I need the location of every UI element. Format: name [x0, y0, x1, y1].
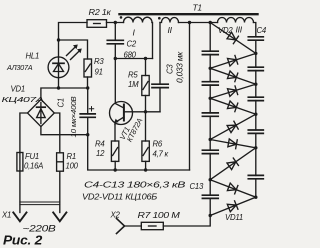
node LED bottom [57, 86, 60, 89]
wire winding II to multiplier [179, 22, 218, 24]
wire base rail [133, 111, 161, 113]
svg-text:VD2: VD2 [218, 26, 233, 35]
svg-text:0,033 мк: 0,033 мк [176, 51, 185, 83]
winding I polarity dot [120, 16, 123, 19]
svg-text:R1: R1 [67, 152, 76, 161]
wire LED bottom [58, 78, 60, 88]
svg-text:10 мк×400В: 10 мк×400В [69, 96, 78, 137]
svg-text:С1: С1 [57, 98, 66, 107]
transistor VT1 [110, 102, 133, 125]
svg-text:С2: С2 [127, 40, 137, 49]
node after R2 [114, 21, 117, 24]
node R4 gnd [114, 168, 117, 171]
wire R5 tap down [145, 59, 147, 76]
svg-text:КЦ407А: КЦ407А [2, 95, 45, 104]
capacitor left2 [202, 82, 218, 85]
wire ground drop [189, 23, 191, 171]
resistor R6 [142, 141, 149, 161]
node R2b [254, 113, 257, 116]
diode VD8 [210, 138, 256, 148]
node L3 [209, 138, 212, 141]
plug X1 right arrow [53, 213, 66, 222]
winding II [160, 18, 179, 23]
winding III [218, 18, 254, 23]
resistor R1 [57, 153, 64, 171]
svg-text:R4: R4 [95, 140, 105, 149]
svg-text:С3: С3 [166, 64, 175, 74]
node L1 [209, 67, 212, 70]
wire multiplier out to R7 [163, 216, 210, 227]
capacitor right4 [248, 130, 263, 133]
node C1 bottom [86, 133, 89, 136]
svg-text:4,7 к: 4,7 к [153, 150, 169, 159]
ground rail [88, 135, 190, 170]
resistor R4 [111, 141, 118, 161]
svg-text:С13: С13 [190, 182, 204, 191]
svg-text:VD1: VD1 [11, 85, 25, 94]
diode VD3 [210, 53, 256, 68]
LED HL1 [48, 45, 82, 78]
svg-text:1М: 1М [128, 80, 139, 89]
resistor R7 [141, 222, 163, 229]
svg-text:12: 12 [96, 149, 105, 158]
svg-text:FU1: FU1 [25, 152, 39, 161]
svg-text:С4: С4 [257, 26, 267, 35]
wire collector rail y58.5 [115, 58, 152, 60]
wire top-left from LED up to R2 [59, 23, 88, 58]
node R0 [254, 52, 257, 55]
svg-text:Рис. 2: Рис. 2 [3, 234, 42, 248]
wire emitter to R4 [114, 125, 116, 142]
svg-text:HL1: HL1 [26, 52, 40, 61]
plug X1 lines [20, 202, 60, 205]
wire R1 to plug [59, 171, 61, 212]
wire bridge plus up [41, 88, 88, 99]
svg-text:~220В: ~220В [23, 223, 56, 234]
svg-text:Х1: Х1 [1, 211, 11, 220]
node R3b [254, 146, 257, 149]
capacitor C4 [248, 37, 263, 40]
svg-text:R6: R6 [153, 140, 163, 149]
diode VD11 [210, 197, 256, 215]
node base [144, 110, 147, 113]
svg-text:680: 680 [124, 51, 137, 60]
wire bridge minus rail [41, 127, 88, 135]
node C2 bottom [114, 57, 117, 60]
resistor R3 [84, 59, 92, 77]
transformer T1 core [120, 13, 258, 15]
wire collector drop [114, 59, 116, 104]
svg-text:0,16А: 0,16А [24, 162, 43, 171]
svg-text:R2 1к: R2 1к [89, 8, 112, 17]
svg-text:R7 100 М: R7 100 М [138, 211, 181, 220]
node R6 gnd [144, 168, 147, 171]
wire R7 to X2 [125, 225, 142, 227]
wire winding III to C4 [254, 23, 256, 37]
resistor R5 [142, 76, 149, 96]
diode VD9 [210, 148, 256, 180]
capacitor right2 [248, 67, 263, 70]
svg-text:100: 100 [66, 162, 79, 171]
svg-text:Т1: Т1 [193, 3, 202, 13]
svg-text:R5: R5 [128, 71, 138, 80]
capacitor left4 [202, 150, 218, 153]
svg-text:Х2: Х2 [110, 211, 121, 220]
node L4 [209, 178, 212, 181]
svg-text:III: III [236, 25, 243, 35]
capacitor left rail 1 [202, 51, 218, 54]
node ground drop [188, 21, 191, 24]
svg-text:VD11: VD11 [225, 213, 243, 222]
diode VD10 [210, 180, 256, 198]
wire R5 to base node [145, 96, 147, 112]
wire R3 bottom [87, 77, 89, 88]
bridge rectifier VD1 [28, 99, 55, 126]
diode VD2 [210, 23, 256, 54]
capacitor right3 [248, 97, 263, 100]
svg-text:С4-С13 180×6,3 кВ: С4-С13 180×6,3 кВ [84, 181, 185, 190]
connector X2 [117, 219, 125, 234]
node R1b [254, 83, 257, 86]
diode VD5 [210, 84, 256, 98]
wire R6 bottom [145, 161, 147, 170]
capacitor right5 [248, 175, 263, 178]
multiplier right rail segments [255, 40, 257, 197]
node C1 top [86, 86, 89, 89]
svg-text:91: 91 [95, 68, 103, 77]
capacitor left3 [202, 113, 218, 116]
svg-text:VD2-VD11 КЦ106Б: VD2-VD11 КЦ106Б [82, 193, 157, 202]
wire R2 to junction [107, 22, 124, 24]
resistor R2 [87, 20, 107, 28]
wire R3 branch [59, 40, 88, 59]
node R4b [254, 196, 257, 199]
node LED/R3 split [57, 38, 60, 41]
capacitor C3 [152, 23, 168, 112]
wire FU1 to plug [19, 171, 21, 213]
node L2 [209, 97, 212, 100]
svg-text:АЛ307А: АЛ307А [6, 63, 33, 72]
node R5 tap [144, 57, 147, 60]
node L5 [209, 214, 212, 217]
winding I [124, 17, 153, 22]
diode VD6 [210, 98, 256, 114]
node multiplier left top [209, 21, 212, 24]
diode VD4 [210, 68, 256, 84]
diode VD7 [210, 114, 256, 139]
wire R4 bottom [114, 161, 116, 170]
wire winding I right down [151, 23, 154, 59]
plug X1 left arrow [13, 213, 26, 222]
capacitor C13 [202, 195, 218, 198]
winding II polarity dot [158, 17, 161, 20]
fuse FU1 [17, 153, 23, 172]
capacitor C1 [80, 88, 95, 135]
wire base node to R6 [145, 112, 147, 141]
svg-text:R3: R3 [94, 57, 104, 66]
multiplier left rail segments [209, 23, 211, 216]
wire bridge left AC [20, 113, 28, 153]
capacitor C2 [107, 23, 123, 59]
wire bridge right AC [54, 113, 60, 153]
